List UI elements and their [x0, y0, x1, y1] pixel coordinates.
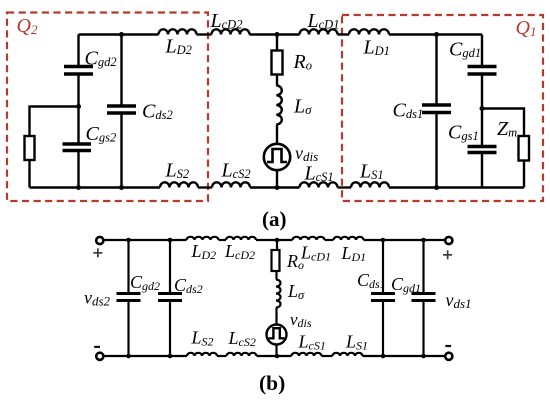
svg-text:LcD2: LcD2	[224, 241, 255, 262]
svg-text:LD2: LD2	[165, 36, 192, 58]
svg-text:LcS2: LcS2	[221, 159, 251, 181]
svg-text:LcD1: LcD1	[300, 243, 331, 264]
wire: gate node Q1 down to Cgs1	[481, 109, 483, 147]
capacitor Cds2 (b)	[169, 240, 171, 294]
inductor LcD1 (b)	[293, 237, 325, 240]
wire: gate node down to Cgs2	[77, 107, 79, 144]
svg-text:Zm: Zm	[497, 118, 517, 140]
resistor Ro (b)	[272, 250, 280, 271]
terminal - left	[96, 353, 103, 360]
resistor Rg (unlabeled)	[25, 136, 35, 160]
terminal - right	[445, 353, 452, 360]
capacitor Cds1	[422, 105, 451, 113]
node dots (a)	[76, 32, 485, 190]
node dots (b)	[126, 238, 426, 359]
svg-text:Cgs1: Cgs1	[448, 122, 479, 144]
svg-text:LcD2: LcD2	[210, 10, 243, 32]
wire: bottom rail (b)	[103, 355, 444, 357]
svg-text:Cds2: Cds2	[174, 275, 203, 296]
inductor LcS2	[212, 182, 250, 187]
capacitor Cgd2 (b)	[127, 240, 129, 294]
svg-text:LD1: LD1	[341, 243, 367, 264]
inductor LcS1	[300, 182, 338, 187]
svg-text:Cds2: Cds2	[142, 101, 173, 123]
wire: gate node Q1 to Zm	[482, 109, 524, 137]
inductor LD1	[349, 29, 389, 34]
wire: Cgs2 to bottom rail	[77, 151, 79, 188]
svg-text:Cgd2: Cgd2	[130, 272, 160, 293]
terminal + right	[445, 237, 452, 244]
dashed box Q2	[7, 13, 208, 202]
capacitor Cgd2	[64, 67, 93, 75]
svg-text:Cgd1: Cgd1	[449, 39, 481, 61]
svg-text:LD1: LD1	[363, 37, 390, 59]
svg-text:Cgd2: Cgd2	[85, 48, 117, 70]
svg-text:LcS1: LcS1	[298, 332, 326, 353]
svg-text:Q1: Q1	[516, 17, 537, 39]
svg-text:LS2: LS2	[191, 328, 214, 349]
wire: Cds2 to bottom rail	[120, 113, 122, 188]
wire: Zm to bottom rail	[523, 161, 525, 188]
inductor LD1 (b)	[334, 237, 364, 240]
source vdis (a)	[264, 144, 290, 170]
wire: Cgs1 to bottom rail	[481, 153, 483, 188]
svg-text:vds2: vds2	[84, 288, 111, 309]
svg-text:Ro: Ro	[293, 51, 312, 73]
svg-text:Cgd1: Cgd1	[391, 274, 421, 295]
wire: left resistor to bottom rail	[28, 160, 30, 188]
wire: Lsigma to vdis source	[276, 125, 278, 144]
inductor LcS2 (b)	[227, 353, 257, 356]
inductor Lsigma	[276, 86, 282, 125]
dashed box Q1	[342, 15, 543, 201]
inductor LS2	[160, 182, 198, 187]
capacitor Cgs1	[468, 147, 497, 153]
terminal + left	[96, 237, 103, 244]
svg-text:Cds1: Cds1	[393, 100, 424, 122]
wire: vdis to bottom rail (a)	[276, 170, 278, 187]
svg-text:Lσ: Lσ	[293, 96, 312, 118]
svg-text:LcS1: LcS1	[304, 163, 334, 185]
capacitor Cgs2	[63, 144, 92, 151]
wire: center branch top (a)	[276, 35, 278, 51]
wire: top rail (b)	[103, 239, 444, 241]
resistor Ro	[272, 51, 283, 75]
svg-text:vdis: vdis	[290, 310, 312, 330]
wire: vdis to bottom rail (b)	[275, 344, 277, 356]
inductor LcD2 (b)	[226, 237, 256, 240]
svg-text:LD2: LD2	[191, 241, 217, 262]
source vdis (b)	[267, 325, 287, 345]
svg-text:LcD1: LcD1	[307, 10, 340, 32]
inductor LcS1 (b)	[292, 353, 322, 356]
wire: bottom rail (a) segments	[30, 186, 525, 188]
svg-text:Q2: Q2	[17, 15, 38, 37]
inductor LcD2	[212, 29, 250, 34]
svg-text:LS2: LS2	[165, 159, 190, 181]
capacitor Cds1 (b)	[382, 240, 384, 294]
capacitor Cds2	[107, 106, 136, 113]
wire: Cgd2 to gate node	[77, 74, 79, 107]
wire: top rail corner to Cgd1	[481, 35, 483, 67]
svg-text:(b): (b)	[259, 371, 285, 395]
impedance Zm	[519, 136, 530, 161]
inductor LD2 (b)	[187, 237, 219, 240]
inductor LS2 (b)	[187, 353, 217, 356]
inductor LD2	[159, 29, 197, 34]
wire: center branch (b) top	[276, 240, 278, 250]
svg-text:(a): (a)	[262, 207, 287, 231]
wire: gate node to left resistor	[30, 107, 79, 137]
wire: Cds1 branch	[435, 35, 437, 105]
wire: Ro to Lsigma (b)	[275, 271, 277, 280]
wire: Cds2 branch top	[120, 35, 122, 106]
svg-text:LcS2: LcS2	[228, 328, 256, 349]
svg-text:Lσ: Lσ	[287, 281, 305, 302]
svg-text:LS1: LS1	[359, 161, 384, 183]
inductor Lsigma (b)	[276, 280, 281, 308]
inductor LcD1	[300, 29, 338, 34]
wire: Cgd1 to gate node Q1	[481, 74, 483, 109]
inductor LS1	[351, 182, 389, 187]
wire: Lsigma to vdis (b)	[275, 308, 277, 325]
inductor LS1 (b)	[333, 353, 363, 356]
svg-text:vdis: vdis	[295, 143, 318, 164]
wire: Ro to Lsigma	[276, 75, 278, 86]
capacitor Cgd1	[468, 67, 497, 75]
wire: Cgd2 drain branch	[77, 35, 79, 67]
capacitor Cgd1 (b)	[422, 240, 424, 294]
svg-text:Cgs2: Cgs2	[86, 123, 117, 145]
svg-text:Cds1: Cds1	[357, 270, 386, 291]
wire: top rail (a) segments	[79, 33, 483, 35]
svg-text:LS1: LS1	[345, 332, 368, 353]
wire: Cds1 to bottom rail	[435, 113, 437, 188]
svg-text:vds1: vds1	[446, 290, 472, 311]
